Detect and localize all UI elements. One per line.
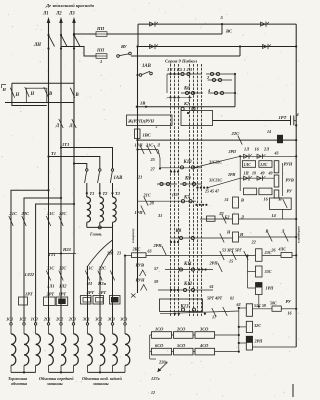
- svg-text:Т3: Т3: [115, 191, 121, 196]
- wire phase2 vertical: [60, 22, 62, 198]
- wire chain left: [247, 256, 249, 288]
- row 1RN contacts: [138, 149, 159, 151]
- svg-text:3С3: 3С3: [107, 317, 115, 322]
- svg-text:2ЛС: 2ЛС: [259, 163, 268, 167]
- contact M1 end: [131, 294, 136, 298]
- controller shaft line 2: [174, 64, 176, 316]
- coil a3: [244, 188, 257, 195]
- arrow line L3: [72, 17, 76, 23]
- arrow line L2: [59, 17, 63, 23]
- svg-text:21: 21: [137, 175, 142, 180]
- svg-text:2Л: 2Л: [263, 147, 270, 152]
- svg-text:19: 19: [252, 171, 256, 176]
- resistor B2: [233, 214, 239, 224]
- svg-text:Н: Н: [226, 230, 231, 235]
- svg-text:21С: 21С: [9, 211, 19, 216]
- svg-text:1РТ: 1РТ: [25, 292, 33, 297]
- wire fuse1 feed: [74, 33, 96, 35]
- svg-text:2С2: 2С2: [55, 317, 63, 322]
- wire line4: [131, 55, 240, 57]
- svg-text:4ЛС: 4ЛС: [278, 247, 287, 252]
- controller shaft line 6: [197, 64, 199, 316]
- svg-text:1С2: 1С2: [19, 317, 26, 322]
- fuse PP2: [96, 54, 107, 59]
- bus M1 vertical: [137, 47, 139, 294]
- wire 58S out: [281, 308, 296, 310]
- svg-text:4РТ: 4РТ: [86, 290, 95, 295]
- svg-text:31С: 31С: [85, 266, 93, 271]
- wire line2 VS: [107, 33, 222, 35]
- svg-text:Н: Н: [15, 93, 20, 98]
- wire curve a: [88, 240, 113, 266]
- wire brake bottom: [86, 222, 88, 227]
- svg-text:1Л1: 1Л1: [47, 284, 54, 289]
- wire brake stems: [86, 183, 88, 197]
- wire bottom join: [253, 346, 297, 348]
- svg-text:22: 22: [251, 240, 257, 245]
- svg-text:ПП: ПП: [96, 48, 105, 53]
- rail bottom right: [238, 308, 240, 352]
- svg-text:Н23: Н23: [62, 247, 72, 252]
- relay RU coil: [274, 190, 279, 198]
- wire 1rp down: [258, 295, 260, 307]
- wire col6 vertical: [73, 204, 75, 254]
- svg-text:Н3: Н3: [86, 281, 93, 286]
- relay RUN coil: [274, 161, 279, 173]
- contact line1 b: [261, 22, 266, 26]
- wire right bottom tick: [292, 384, 294, 397]
- relay box RUN: [181, 111, 213, 126]
- svg-text:Л1: Л1: [42, 12, 49, 17]
- paper speckle: [99, 61, 100, 62]
- wire feeder3: [36, 204, 74, 323]
- reverser inner box: [26, 88, 47, 102]
- svg-text:ЛН: ЛН: [33, 43, 41, 48]
- svg-text:Н2н: Н2н: [97, 281, 107, 286]
- resistor B1: [233, 197, 239, 208]
- svg-text:Л2: Л2: [55, 12, 62, 17]
- wire reverser left: [12, 83, 47, 105]
- svg-text:23: 23: [116, 252, 121, 256]
- contact col2: [22, 216, 26, 226]
- wire 32S link: [239, 326, 247, 328]
- svg-text:1: 1: [100, 59, 102, 64]
- contact col4 low: [46, 271, 50, 281]
- svg-text:РУ: РУ: [287, 189, 293, 194]
- svg-text:2СО: 2СО: [176, 327, 186, 332]
- svg-text:К8: К8: [175, 229, 182, 234]
- relay box col9: [110, 296, 121, 305]
- bus right vertical: [295, 24, 297, 347]
- svg-text:ВУ: ВУ: [120, 44, 128, 49]
- wire T tap3: [74, 164, 87, 169]
- box 14: [270, 198, 292, 209]
- wire box top: [137, 106, 235, 108]
- svg-text:3 2 1 К5 1 2 3: 3 2 1 К5 1 2 3: [166, 67, 193, 72]
- svg-text:32С: 32С: [58, 211, 68, 216]
- wire K9 right: [208, 178, 240, 187]
- box K13: [160, 299, 203, 311]
- relay box col2: [19, 297, 28, 305]
- contact H1: [10, 88, 14, 98]
- wire 2RP link: [239, 342, 247, 344]
- svg-text:2РП: 2РП: [228, 150, 237, 154]
- resistor 1RP: [256, 283, 263, 295]
- svg-text:14: 14: [267, 129, 271, 134]
- svg-text:К6: К6: [183, 87, 190, 92]
- coil 2LS: [259, 161, 272, 168]
- wire 22S line: [138, 139, 278, 141]
- svg-text:(33: (33: [172, 192, 178, 197]
- contact row K9: [180, 183, 202, 185]
- svg-text:61: 61: [210, 284, 214, 289]
- svg-text:Т2: Т2: [103, 191, 109, 196]
- contact col1: [9, 216, 13, 226]
- svg-text:1Л22: 1Л22: [25, 272, 35, 277]
- svg-text:4СО: 4СО: [199, 343, 209, 348]
- relay box col4: [44, 297, 56, 306]
- resistor 23S: [256, 249, 263, 261]
- wire col9 vertical: [112, 227, 114, 322]
- switch LN blade3: [74, 35, 80, 47]
- wire 4LS out: [292, 254, 296, 256]
- svg-text:2С1: 2С1: [43, 317, 51, 322]
- svg-text:1СО: 1СО: [155, 327, 164, 332]
- wire row B3: [239, 236, 297, 238]
- svg-text:Т1: Т1: [51, 151, 56, 156]
- switch 220 arrow: [158, 363, 168, 373]
- wire right left rail: [239, 156, 241, 191]
- svg-text:63: 63: [148, 249, 152, 254]
- svg-text:25: 25: [150, 157, 156, 162]
- wire 23S out: [262, 255, 281, 257]
- resistor 2SO: [174, 332, 194, 339]
- wire box14 down: [282, 209, 284, 219]
- wire col10 vertical: [124, 256, 126, 323]
- svg-text:1РН: 1РН: [135, 143, 144, 148]
- svg-text:обмотка: обмотка: [11, 381, 27, 386]
- svg-text:31С31С: 31С31С: [208, 179, 222, 183]
- svg-text:Н: Н: [30, 92, 35, 97]
- svg-text:1Т1: 1Т1: [62, 142, 69, 147]
- svg-text:1В: 1В: [140, 101, 145, 106]
- svg-text:32С: 32С: [98, 266, 106, 271]
- wire 2VS left: [125, 255, 132, 257]
- contact 1RP: [141, 206, 145, 215]
- wire SO row1: [150, 334, 152, 336]
- contact H2: [25, 87, 29, 97]
- motor winding coil 1: [10, 323, 12, 325]
- resistor 1VS: [135, 129, 141, 139]
- svg-text:машины: машины: [46, 381, 63, 386]
- svg-text:2РН: 2РН: [227, 173, 236, 177]
- contact row K8 dots: [170, 241, 172, 243]
- wire SO left rail: [149, 335, 151, 352]
- motor winding coil 2: [23, 323, 25, 325]
- wire T tap2: [49, 157, 100, 169]
- svg-text:1РП: 1РП: [135, 210, 144, 215]
- wire phase1 vertical: [48, 22, 50, 190]
- resistor 4SO: [195, 348, 215, 355]
- svg-text:49: 49: [260, 171, 265, 176]
- wire 2VS line: [146, 255, 256, 257]
- resistor 62S: [207, 216, 216, 221]
- svg-text:Н: Н: [278, 197, 283, 202]
- svg-text:3С3: 3С3: [119, 317, 127, 322]
- motor winding coil 3: [34, 323, 36, 325]
- wire coil link: [282, 163, 284, 196]
- resistor B3: [233, 232, 239, 242]
- svg-text:К12: К12: [183, 282, 193, 287]
- contact col9: [110, 271, 114, 281]
- node bus top right: [295, 45, 297, 47]
- svg-text:2РН: 2РН: [153, 243, 163, 248]
- motor winding coil 6: [72, 323, 74, 325]
- contact row K11: [165, 269, 213, 271]
- resistor 32S: [246, 321, 252, 332]
- wire phase3 vertical: [73, 22, 75, 204]
- svg-text:2РТ: 2РТ: [46, 292, 55, 297]
- svg-text:33С: 33С: [264, 269, 272, 274]
- svg-text:31С32С: 31С32С: [208, 161, 222, 165]
- wire top line3: [138, 46, 296, 48]
- resistor 2VS: [132, 253, 146, 258]
- resistor 33S: [256, 266, 263, 277]
- svg-text:23С: 23С: [264, 250, 272, 255]
- wire LN out: [61, 47, 96, 57]
- switch LN blade1: [49, 35, 55, 47]
- wire SO row2: [150, 351, 152, 353]
- svg-text:1ВС: 1ВС: [143, 133, 152, 138]
- svg-text:1Т1: 1Т1: [49, 252, 56, 257]
- svg-text:2С3: 2С3: [68, 317, 76, 322]
- svg-text:Ж(РУП)(РУН: Ж(РУП)(РУН: [127, 119, 155, 124]
- relay 1RT: [290, 116, 292, 126]
- resistor 3SO: [195, 332, 215, 339]
- svg-text:3СО: 3СО: [199, 327, 209, 332]
- row 53 contacts: [220, 251, 224, 260]
- row RT contacts: [212, 308, 216, 317]
- resistor 1SO: [152, 332, 172, 339]
- contact row K6: [181, 92, 203, 94]
- controller shaft line 4: [189, 64, 191, 316]
- wire coil bus 2: [49, 371, 74, 373]
- svg-text:31С: 31С: [46, 266, 54, 271]
- svg-text:12: 12: [151, 391, 155, 395]
- svg-text:РУН: РУН: [136, 278, 146, 283]
- wire 22S right: [283, 139, 296, 141]
- arrow line L1: [47, 17, 51, 23]
- wire 220 tap: [149, 352, 151, 359]
- svg-text:43: 43: [274, 151, 279, 156]
- svg-text:Н: Н: [2, 87, 7, 92]
- contact row dots: [169, 96, 171, 98]
- svg-text:5СО: 5СО: [177, 343, 186, 348]
- svg-text:2РП: 2РП: [209, 261, 219, 266]
- contact col7: [85, 271, 89, 281]
- contact pair left: [157, 183, 177, 185]
- wire line4 rise: [239, 47, 241, 57]
- contact K13: [181, 308, 184, 311]
- svg-text:3С2: 3С2: [94, 317, 102, 322]
- svg-text:3РТ: 3РТ: [98, 290, 107, 295]
- wire controller right link: [234, 74, 236, 107]
- svg-text:Главн.: Главн.: [89, 232, 102, 237]
- contact D1: [59, 119, 63, 128]
- svg-text:Л2: Л2: [218, 212, 224, 216]
- contact 22S: [238, 136, 242, 145]
- contact row K7b: [138, 200, 197, 202]
- wire reverser bottom: [5, 102, 74, 104]
- row 1L contacts: [244, 154, 249, 158]
- contact row K10: [160, 167, 202, 169]
- contact V2: [70, 88, 74, 98]
- wire T tap1: [61, 148, 113, 169]
- switch brake blade3: [111, 169, 113, 171]
- fuse PP1: [96, 32, 107, 37]
- wire feeder2: [24, 198, 61, 323]
- svg-text:1АВ: 1АВ: [114, 176, 124, 181]
- resistor 2RPb: [246, 336, 252, 350]
- wire col4 vertical: [48, 190, 50, 323]
- svg-text:1РП: 1РП: [266, 286, 275, 291]
- motor winding coil 9: [111, 323, 113, 325]
- svg-text:6СО: 6СО: [155, 343, 164, 348]
- resistor 6SO: [152, 348, 172, 355]
- svg-text:5РТ 4РТ: 5РТ 4РТ: [207, 296, 223, 301]
- contact col5: [59, 216, 63, 226]
- relay box col7: [81, 296, 92, 305]
- svg-text:к приборам: к приборам: [297, 226, 301, 243]
- wire line2 rise: [221, 24, 223, 34]
- wire K10 right: [195, 156, 240, 167]
- svg-text:22С: 22С: [21, 211, 31, 216]
- svg-text:21С: 21С: [145, 143, 153, 148]
- wire row B2b: [239, 218, 297, 220]
- svg-text:63: 63: [237, 302, 241, 307]
- wire feeder1: [11, 190, 49, 323]
- wire col5 vertical: [60, 198, 62, 323]
- node 1RT bus: [295, 124, 297, 126]
- wire col7 vertical: [87, 266, 89, 323]
- wire to 1RT: [213, 120, 291, 122]
- svg-text:2РП: 2РП: [254, 339, 264, 344]
- wire 33s link: [248, 271, 256, 273]
- svg-text:4: 4: [296, 112, 299, 117]
- svg-text:27: 27: [150, 167, 156, 172]
- svg-text:машины: машины: [92, 381, 109, 386]
- contact row K9 dots: [196, 187, 198, 189]
- controller shaft line 5: [193, 64, 195, 316]
- switch LN blade2: [61, 35, 67, 47]
- contact row K12: [158, 289, 213, 291]
- node T3: [111, 192, 113, 194]
- svg-text:РУ: РУ: [286, 299, 292, 304]
- svg-text:2ВС: 2ВС: [132, 247, 141, 252]
- switch VU: [117, 55, 120, 58]
- wire 1rp link: [248, 287, 256, 289]
- wire K5-K6 left link: [166, 74, 168, 93]
- wire row B2: [200, 218, 233, 220]
- contact K7: [181, 107, 184, 110]
- wire 51S feed: [239, 307, 247, 309]
- contact D2: [72, 119, 76, 128]
- svg-text:31: 31: [157, 213, 162, 218]
- row 1L wire: [240, 155, 296, 157]
- controller shaft line 3: [178, 64, 180, 316]
- wire top line1: [138, 23, 296, 25]
- svg-text:к тормозу: к тормозу: [131, 228, 135, 243]
- svg-text:3С1: 3С1: [82, 317, 90, 322]
- wire step 25-27: [158, 150, 160, 169]
- svg-text:1П: 1П: [244, 171, 250, 176]
- svg-text:22С: 22С: [231, 131, 241, 136]
- svg-text:1РТ: 1РТ: [279, 115, 287, 120]
- contact row K8: [171, 237, 233, 239]
- svg-text:Де эталонной краснодо: Де эталонной краснодо: [45, 3, 95, 8]
- relay box col8: [93, 296, 104, 305]
- motor winding coil 4: [47, 323, 49, 325]
- resistor 22S black: [277, 135, 283, 143]
- svg-text:ВС: ВС: [225, 29, 233, 34]
- resistor 5SO: [174, 348, 194, 355]
- svg-text:РУВ: РУВ: [136, 263, 145, 268]
- svg-text:1Л2: 1Л2: [59, 284, 67, 289]
- wire col8 vertical: [99, 268, 101, 323]
- coil brake 3: [113, 197, 117, 222]
- svg-text:51: 51: [225, 197, 229, 202]
- svg-text:32С: 32С: [58, 266, 66, 271]
- coil brake 1: [87, 197, 91, 222]
- resistor 51S: [246, 304, 252, 317]
- svg-text:32С: 32С: [106, 252, 114, 256]
- svg-text:25 45 47: 25 45 47: [204, 189, 220, 194]
- svg-text:В: В: [240, 198, 244, 203]
- wire 51S out: [253, 308, 273, 310]
- contact col8: [98, 271, 102, 281]
- svg-text:58С: 58С: [270, 301, 277, 306]
- row K13 dots: [174, 313, 176, 315]
- contact line3 a: [150, 45, 155, 49]
- contact row dots2: [170, 171, 172, 173]
- svg-text:К9: К9: [184, 177, 191, 182]
- svg-text:К10: К10: [183, 160, 193, 165]
- svg-text:Л3: Л3: [68, 12, 75, 17]
- contact row 2: [208, 79, 232, 81]
- controller shaft line 1: [170, 64, 172, 316]
- svg-text:Серия 9 Пибкол: Серия 9 Пибкол: [165, 59, 198, 64]
- svg-text:К11: К11: [183, 262, 192, 267]
- wire RT row: [160, 311, 239, 314]
- relay RUV coil: [274, 175, 279, 187]
- coil brake 2: [100, 197, 104, 222]
- contact V1: [44, 87, 48, 97]
- svg-text:Н: Н: [239, 232, 244, 237]
- svg-text:1РТ: 1РТ: [59, 292, 67, 297]
- wire curve b: [100, 249, 112, 268]
- contact col5 low: [59, 271, 63, 281]
- svg-text:51С 59: 51С 59: [254, 303, 266, 308]
- svg-text:К7: К7: [183, 101, 190, 106]
- wire coil bus 1: [11, 371, 36, 373]
- row 1P contacts: [244, 176, 249, 180]
- controller shaft line 7: [201, 64, 203, 316]
- svg-text:РУН: РУН: [284, 162, 293, 167]
- resistor 4LS: [281, 253, 292, 258]
- svg-text:+: +: [155, 125, 158, 130]
- svg-text:1С3: 1С3: [31, 317, 38, 322]
- coil b3: [259, 188, 272, 195]
